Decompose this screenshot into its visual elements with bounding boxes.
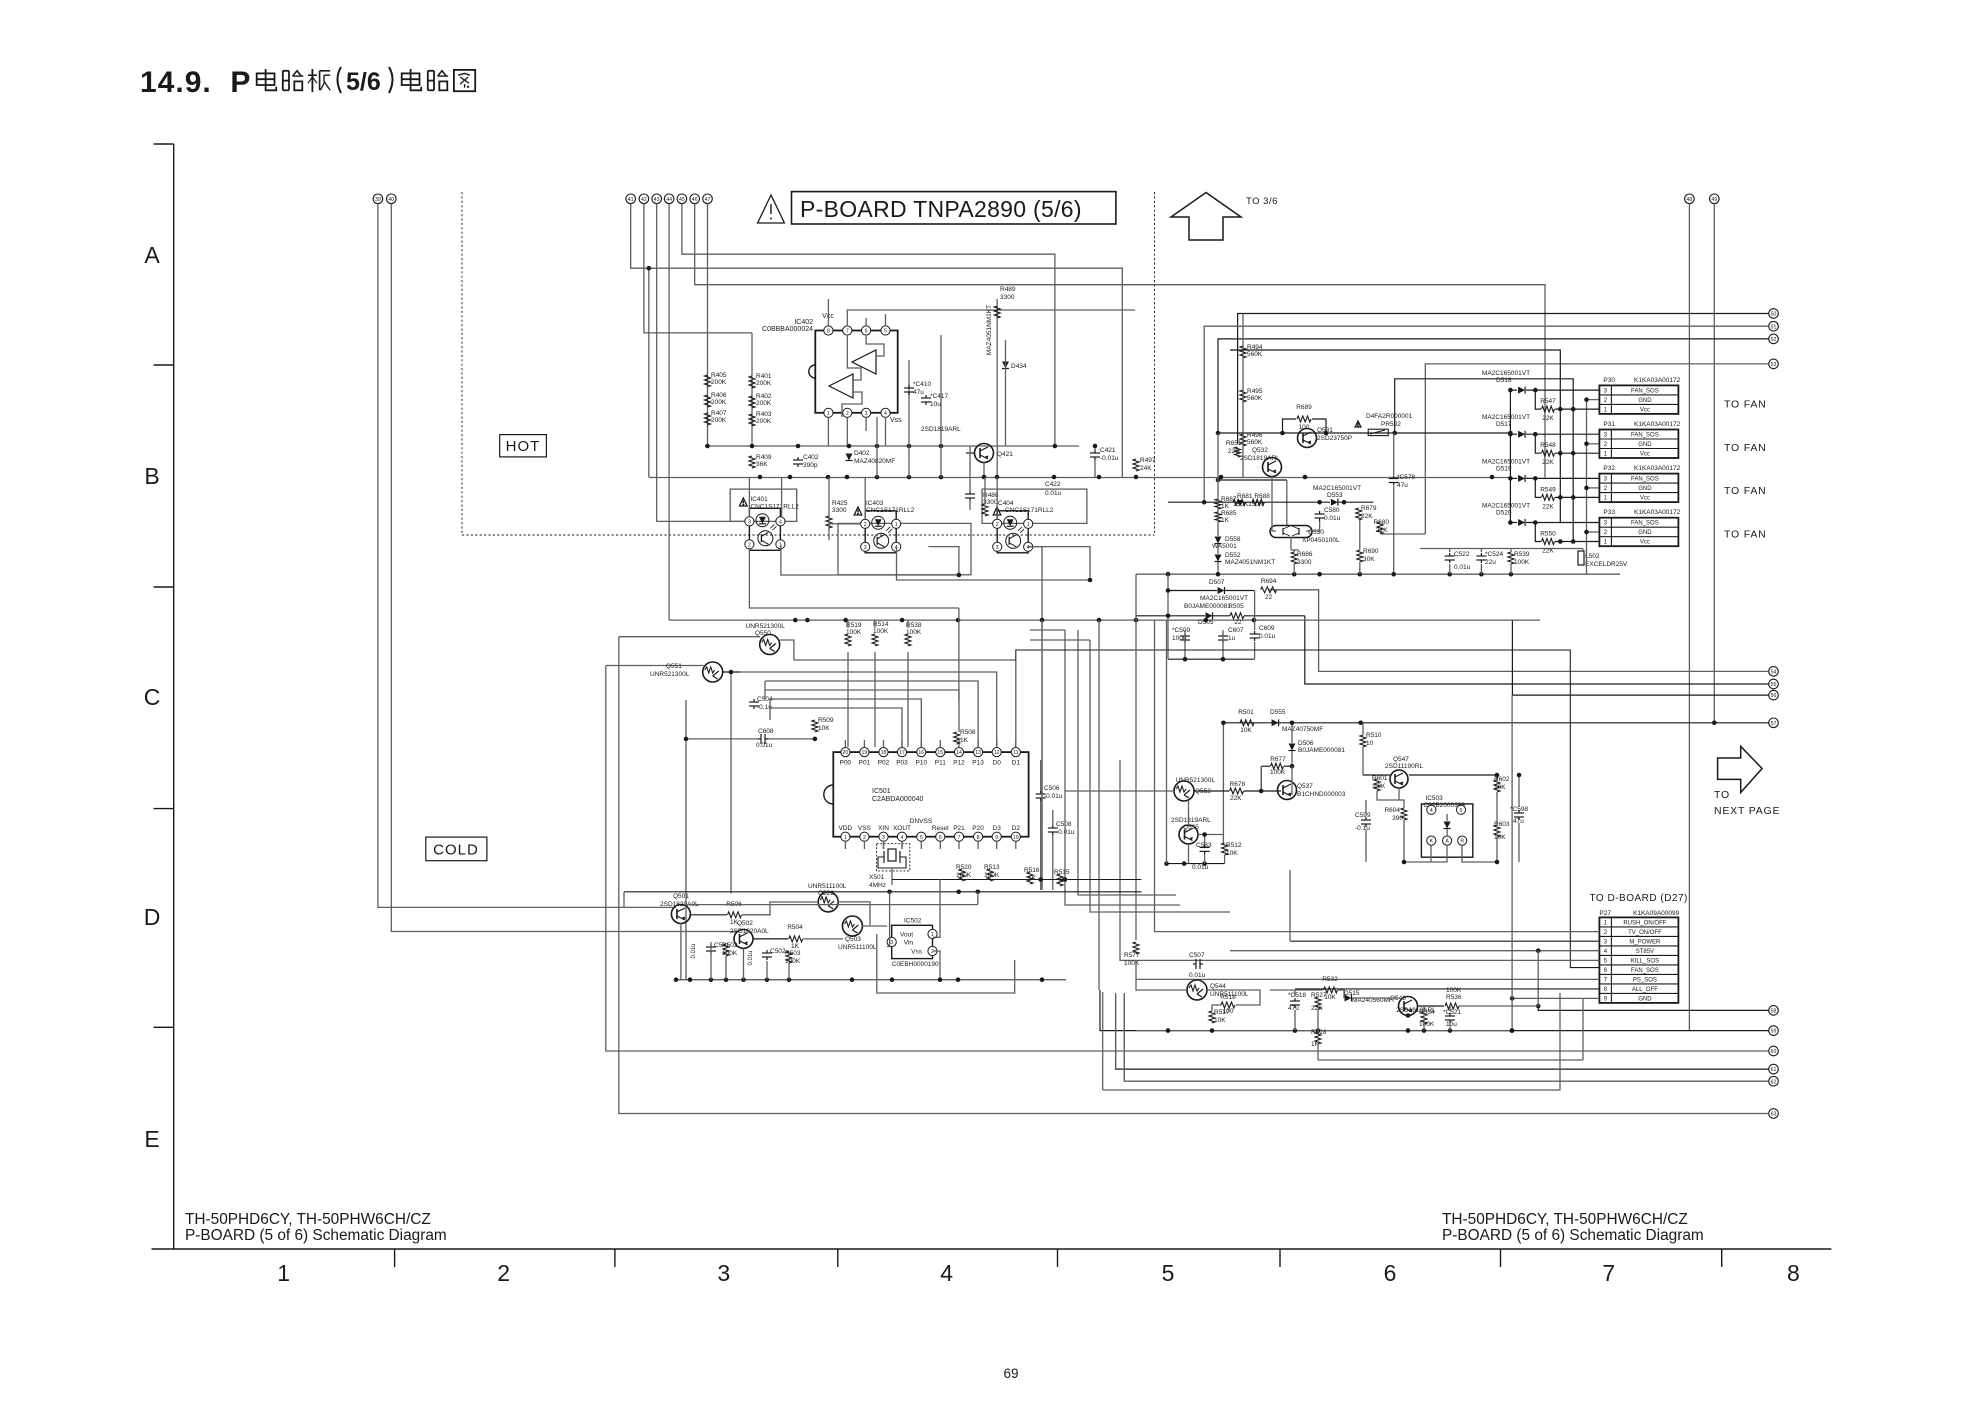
capacitor C506: [1040, 791, 1042, 794]
svg-text:2: 2: [846, 411, 849, 417]
svg-text:10: 10: [1013, 835, 1019, 841]
terminal 46: [690, 194, 700, 204]
svg-text:R512: R512: [1226, 842, 1242, 849]
wire c599: [1365, 800, 1367, 814]
svg-text:22K: 22K: [1361, 513, 1373, 520]
svg-text:D552: D552: [1225, 552, 1241, 559]
IC501 pin stub top: [939, 740, 941, 748]
svg-text:K1KA09A00099: K1KA09A00099: [1633, 910, 1680, 917]
svg-text:0.01u: 0.01u: [1324, 515, 1341, 522]
svg-text:R516: R516: [1024, 867, 1040, 874]
transistor Q552: [1174, 781, 1194, 801]
wire r690 col: [1359, 520, 1361, 550]
IC501 pin stub bottom: [958, 841, 960, 849]
svg-text:2: 2: [748, 542, 751, 548]
svg-text:R677: R677: [1270, 756, 1286, 763]
svg-text:2SD1820A0L: 2SD1820A0L: [730, 928, 769, 935]
svg-text:MAZ40750MF: MAZ40750MF: [1282, 726, 1323, 733]
svg-text:C0BBBA000024: C0BBBA000024: [762, 326, 813, 333]
resistor column R494: [1240, 346, 1246, 358]
svg-text:R679: R679: [1361, 505, 1377, 512]
capacitor C402: [797, 457, 799, 460]
svg-text:R534: R534: [1419, 1009, 1435, 1016]
IC402 opamp upper: [852, 350, 876, 374]
resistor R686: [1291, 552, 1297, 564]
resistor R503: [786, 951, 792, 963]
svg-text:R520: R520: [956, 864, 972, 871]
title paren close: [389, 67, 393, 93]
resistor R577: [1133, 942, 1139, 954]
resistor R548: [1535, 434, 1541, 453]
svg-text:R527: R527: [1311, 992, 1327, 999]
svg-text:9: 9: [995, 835, 998, 841]
svg-text:100K: 100K: [956, 872, 972, 879]
wire bus620: [669, 619, 1540, 621]
IC402 pin 5: [881, 326, 890, 335]
svg-text:GND: GND: [1638, 530, 1652, 536]
svg-text:63: 63: [1771, 1112, 1777, 1118]
hot boundary dashed horizontal: [462, 534, 1155, 536]
junction bus574: [1391, 572, 1396, 577]
junction bottom gnd: [1316, 1028, 1321, 1033]
svg-text:Reset: Reset: [932, 825, 949, 832]
svg-text:R402: R402: [756, 393, 772, 400]
svg-text:5/6: 5/6: [346, 68, 381, 96]
IC501 pin stub top: [844, 740, 846, 748]
TO 3/6 arrow: [1171, 193, 1241, 241]
wire q503 box: [877, 934, 1015, 993]
svg-text:100K: 100K: [1514, 559, 1530, 566]
svg-text:3: 3: [865, 411, 868, 417]
terminal 50: [1769, 309, 1779, 319]
diode D506: [1289, 744, 1296, 751]
junction bus477: [758, 475, 763, 480]
svg-text:UNR521300L: UNR521300L: [746, 623, 786, 630]
svg-text:MA2C165001VT: MA2C165001VT: [1482, 414, 1530, 421]
svg-text:C507: C507: [1189, 952, 1205, 959]
IC501 pin 8: [974, 832, 983, 841]
transistor Q535: [1179, 825, 1198, 844]
wire d0d1: [1016, 650, 1600, 968]
IC501 pin 14: [954, 748, 963, 757]
junction bus620: [793, 618, 798, 623]
svg-text:EXCELDR25V: EXCELDR25V: [1585, 561, 1628, 568]
resistor R685: [1215, 512, 1221, 522]
svg-text:3: 3: [748, 519, 751, 525]
svg-text:3300: 3300: [832, 507, 847, 514]
svg-text:Vcc: Vcc: [1640, 496, 1650, 502]
svg-text:UNR521300L: UNR521300L: [1176, 777, 1216, 784]
svg-text:220: 220: [1228, 448, 1239, 455]
svg-text:C2ABDA000040: C2ABDA000040: [872, 796, 923, 803]
wire cold bus: [624, 891, 1141, 893]
component PR502: [1368, 429, 1388, 435]
svg-text:47: 47: [705, 197, 711, 203]
wire gnd bus980: [676, 979, 1066, 981]
svg-text:IC403: IC403: [866, 500, 884, 507]
IC501 pin stub bottom: [996, 841, 998, 849]
resistor R515: [1057, 874, 1063, 886]
svg-text:TO: TO: [1714, 789, 1730, 801]
capacitor C522: [1449, 553, 1451, 556]
wire mid drop1: [958, 608, 960, 700]
svg-text:KILL_SOS: KILL_SOS: [1631, 958, 1659, 964]
frame row tick: [154, 364, 174, 366]
wire nest pin16: [770, 699, 921, 747]
svg-text:D555: D555: [1270, 709, 1286, 716]
junction bus620: [1040, 618, 1045, 623]
svg-text:Q535: Q535: [1183, 824, 1199, 831]
resistor R502: [723, 944, 729, 956]
terminal 55: [1769, 679, 1779, 689]
resistor R679: [1356, 508, 1362, 520]
svg-text:TV_ON/OFF: TV_ON/OFF: [1628, 930, 1662, 936]
wire r401 column: [751, 333, 753, 446]
svg-text:C580: C580: [1324, 507, 1340, 514]
wire fan ladder rail: [1509, 390, 1511, 522]
resistor R690: [1357, 550, 1363, 562]
svg-text:Q503: Q503: [845, 936, 861, 943]
capacitor C502: [766, 950, 768, 953]
svg-text:1K: 1K: [960, 737, 969, 744]
svg-text:5: 5: [884, 329, 887, 335]
svg-text:1K: 1K: [791, 943, 800, 950]
capacitor C507: [1193, 963, 1196, 965]
IC501 pin 2: [860, 832, 869, 841]
svg-text:560K: 560K: [1247, 351, 1263, 358]
svg-text:R678: R678: [1230, 781, 1246, 788]
junction bus574: [1447, 572, 1452, 577]
wire to term63b: [619, 637, 1769, 1114]
diode D520: [1518, 519, 1525, 526]
junction bus980: [688, 977, 693, 982]
title CJK dian2: [402, 73, 420, 85]
junction bus477: [1134, 475, 1139, 480]
svg-text:P32: P32: [1603, 465, 1615, 472]
svg-text:36K: 36K: [756, 461, 768, 468]
junction bus477: [1219, 475, 1224, 480]
wire term49 bus: [1713, 204, 1715, 723]
svg-text:100K: 100K: [1124, 960, 1140, 967]
svg-text:100K: 100K: [1419, 1021, 1435, 1028]
wire p27 r4: [1230, 950, 1599, 952]
wire q421 links: [966, 452, 974, 454]
svg-text:R489: R489: [1000, 286, 1016, 293]
svg-text:Q522: Q522: [818, 890, 834, 897]
svg-text:VSS: VSS: [858, 825, 872, 832]
svg-text:R532: R532: [1322, 976, 1338, 983]
diode D515: [1345, 995, 1352, 1002]
resistor R409: [749, 456, 755, 468]
svg-text:0.01u: 0.01u: [691, 943, 697, 958]
svg-text:TH-50PHD6CY, TH-50PHW6CH/CZ: TH-50PHD6CY, TH-50PHW6CH/CZ: [185, 1211, 431, 1228]
svg-text:45: 45: [679, 197, 685, 203]
junction bus980: [787, 977, 792, 982]
svg-text:Vcc: Vcc: [1640, 452, 1650, 458]
svg-text:B0JAME000081: B0JAME000081: [1298, 747, 1345, 754]
IC503 pin 5: [1456, 805, 1465, 814]
wire extra drop: [648, 268, 650, 477]
svg-text:D515: D515: [1344, 990, 1360, 997]
svg-text:K1KA03A00172: K1KA03A00172: [1634, 465, 1681, 472]
IC402 opamp wire1: [866, 335, 884, 356]
wire q537: [1194, 790, 1229, 792]
svg-text:2SD1819ARL: 2SD1819ARL: [921, 426, 961, 433]
svg-text:TO FAN: TO FAN: [1724, 528, 1767, 540]
resistor R501: [1240, 720, 1254, 726]
wire q551 col: [730, 672, 732, 894]
svg-text:UNR511100L: UNR511100L: [808, 883, 847, 890]
svg-text:D402: D402: [854, 450, 870, 457]
svg-text:R548: R548: [1540, 442, 1556, 449]
IC503 zener: [1444, 822, 1451, 829]
svg-text:R547: R547: [1540, 398, 1556, 405]
svg-text:K1KA03A00172: K1KA03A00172: [1634, 421, 1681, 428]
svg-text:5: 5: [920, 835, 923, 841]
svg-text:R: R: [1460, 839, 1464, 845]
resistor R405: [705, 375, 711, 387]
svg-text:R651: R651: [1226, 440, 1242, 447]
svg-text:4: 4: [779, 519, 782, 525]
diode D507: [1218, 587, 1225, 594]
IC402 opamp lower: [829, 374, 853, 398]
junction bus477: [788, 475, 793, 480]
junction bus477: [939, 475, 944, 480]
svg-text:XOUT: XOUT: [893, 825, 911, 832]
junction bus446: [875, 444, 880, 449]
svg-text:*C410: *C410: [913, 381, 931, 388]
svg-text:560K: 560K: [1247, 439, 1263, 446]
IC501 pin stub bottom: [939, 841, 941, 849]
svg-text:FAN_SOS: FAN_SOS: [1631, 968, 1659, 974]
junction c509: [1183, 657, 1188, 662]
resistor R520: [959, 869, 965, 881]
diode D402: [846, 454, 853, 461]
frame col tick: [614, 1249, 616, 1267]
svg-text:2SD1819ARL: 2SD1819ARL: [1171, 817, 1211, 824]
IC402 pin 1: [824, 408, 833, 417]
svg-text:PR502: PR502: [1381, 421, 1401, 428]
wire q550: [780, 640, 794, 660]
IC503 pin R: [1458, 836, 1467, 845]
wire q530: [1272, 476, 1276, 531]
wire mid drop2: [1041, 620, 1043, 890]
svg-text:-0.01u: -0.01u: [1100, 455, 1119, 462]
svg-text:P27: P27: [1599, 910, 1611, 917]
optocoupler IC401: [749, 508, 780, 550]
svg-text:D4FA2R000001: D4FA2R000001: [1366, 413, 1413, 420]
svg-text:41: 41: [628, 197, 634, 203]
frame row tick: [154, 586, 174, 588]
frame col tick: [1057, 1249, 1059, 1267]
terminal 51: [1769, 321, 1779, 331]
inductor L502: [1578, 551, 1584, 565]
wire to term56: [1512, 620, 1768, 695]
wire p27 r8: [1295, 988, 1599, 990]
wire fan rail left: [1217, 433, 1219, 536]
svg-text:7: 7: [1602, 1260, 1615, 1286]
svg-text:C421: C421: [1100, 447, 1116, 454]
terminal 48: [1685, 194, 1695, 204]
wire ic401 pin up: [748, 477, 750, 517]
junction bus620: [843, 618, 848, 623]
wire q547 base: [1377, 791, 1404, 808]
svg-text:7: 7: [846, 329, 849, 335]
svg-text:100K: 100K: [722, 950, 738, 957]
svg-text:10: 10: [1366, 740, 1374, 747]
svg-text:R680: R680: [1374, 519, 1390, 526]
wire c506 col: [1040, 760, 1042, 791]
capacitor C599: [1365, 817, 1367, 820]
svg-text:C0EBH0000190: C0EBH0000190: [892, 961, 939, 968]
wire band v5: [1166, 620, 1168, 864]
svg-text:0.01u: 0.01u: [1189, 972, 1206, 979]
wire to term59: [1100, 990, 1769, 1031]
svg-text:16: 16: [918, 750, 924, 756]
svg-text:200K: 200K: [756, 400, 772, 407]
svg-text:*C598: *C598: [1510, 806, 1528, 813]
junction bus446: [750, 444, 755, 449]
diode D519: [1518, 475, 1525, 482]
junction bus446: [796, 444, 801, 449]
junction bus477: [1097, 475, 1102, 480]
svg-text:CNC1S171RLL2: CNC1S171RLL2: [750, 503, 799, 510]
capacitor C417: [925, 395, 927, 398]
svg-text:1: 1: [844, 835, 847, 841]
svg-text:69: 69: [1003, 1366, 1018, 1381]
svg-text:R401: R401: [756, 373, 772, 380]
svg-text:R407: R407: [711, 410, 727, 417]
svg-text:390p: 390p: [803, 462, 818, 469]
svg-text:P21: P21: [953, 825, 965, 832]
svg-text:C599: C599: [1355, 812, 1371, 819]
svg-text:Q530: Q530: [1308, 529, 1324, 536]
svg-text:R604: R604: [1384, 807, 1400, 814]
svg-text:Q502: Q502: [737, 920, 753, 927]
svg-text:R515: R515: [1054, 869, 1070, 876]
svg-text:52: 52: [1771, 337, 1777, 343]
resistor R527: [1315, 997, 1321, 1009]
wire ic404 down: [1027, 547, 1042, 621]
resistor R505: [1230, 613, 1244, 619]
wire to term53: [1425, 364, 1768, 534]
svg-text:12: 12: [994, 750, 1000, 756]
svg-text:DNVSS: DNVSS: [910, 818, 933, 825]
resistor R534: [1421, 1012, 1427, 1024]
diode D518: [1518, 387, 1525, 394]
junction bus980: [956, 977, 961, 982]
svg-text:22K: 22K: [1311, 1005, 1323, 1012]
resistor R508: [954, 732, 960, 744]
junction bus980: [674, 977, 679, 982]
wire ic403 pin up: [864, 477, 866, 519]
wire xtal: [883, 841, 885, 849]
connector P33 table: [1599, 518, 1678, 547]
svg-text:A: A: [1445, 839, 1449, 845]
transistor Q537: [1278, 781, 1297, 800]
title CJK ban: [311, 69, 313, 92]
junction bus574: [1216, 572, 1221, 577]
svg-text:R497: R497: [1140, 457, 1156, 464]
svg-text:2SD1819ARL: 2SD1819ARL: [1240, 455, 1280, 462]
transistor Q551: [703, 662, 723, 682]
svg-text:20: 20: [843, 750, 849, 756]
frame row tick: [154, 808, 174, 810]
junction bus620: [1204, 618, 1209, 623]
junction bus574: [1479, 572, 1484, 577]
svg-text:R694: R694: [1261, 578, 1277, 585]
svg-text:1: 1: [827, 411, 830, 417]
terminal 53: [1769, 359, 1779, 369]
svg-text:R686: R686: [1297, 551, 1313, 558]
junction bus620: [1134, 618, 1139, 623]
resistor R403: [749, 414, 755, 426]
svg-text:R505: R505: [1228, 603, 1244, 610]
wire D518 net: [1510, 389, 1517, 391]
resistor R602: [1494, 780, 1500, 792]
svg-text:60: 60: [1771, 1049, 1777, 1055]
svg-text:TO FAN: TO FAN: [1724, 442, 1767, 454]
svg-text:R495: R495: [1247, 388, 1263, 395]
svg-text:R550: R550: [1540, 531, 1556, 538]
resistor R425: [826, 516, 832, 528]
wire opto rows2: [897, 547, 1091, 580]
IC403 warn: [854, 507, 862, 515]
svg-text:30K: 30K: [1363, 556, 1375, 563]
svg-text:R518: R518: [1220, 994, 1236, 1001]
wire term45: [682, 204, 1055, 446]
svg-text:R405: R405: [711, 372, 727, 379]
svg-text:Q547: Q547: [1393, 756, 1409, 763]
resistor R402: [749, 396, 755, 408]
svg-text:R508: R508: [960, 729, 976, 736]
wire bottom gnd: [1136, 1030, 1512, 1032]
svg-text:PS_SOS: PS_SOS: [1633, 977, 1657, 983]
junction bus477: [826, 475, 831, 480]
junction d555: [1358, 721, 1363, 726]
svg-text:*C578: *C578: [1397, 474, 1415, 481]
title CJK lu: [282, 71, 284, 91]
svg-text:VDD: VDD: [839, 825, 853, 832]
terminal 52: [1769, 334, 1779, 344]
junction bus980: [850, 977, 855, 982]
IC503 pin 4: [1427, 805, 1436, 814]
IC402 opamp wire2: [847, 335, 861, 380]
terminal 59: [1769, 1026, 1779, 1036]
svg-text:P11: P11: [935, 760, 946, 767]
frame row tick: [154, 143, 174, 145]
svg-text:62: 62: [1771, 1079, 1777, 1085]
resistor R689: [1283, 419, 1297, 433]
svg-text:42: 42: [641, 197, 647, 203]
svg-text:200K: 200K: [756, 380, 772, 387]
svg-text:54: 54: [1771, 670, 1777, 676]
svg-text:0.01u: 0.01u: [1454, 564, 1471, 571]
svg-text:2: 2: [863, 835, 866, 841]
svg-text:22: 22: [1234, 619, 1242, 626]
svg-text:UNR511100L: UNR511100L: [838, 944, 877, 951]
optocoupler IC403: [865, 511, 896, 553]
svg-text:E: E: [144, 1126, 159, 1152]
svg-text:R687: R687: [1221, 496, 1237, 503]
resistor R538: [905, 634, 911, 646]
wire to term62: [1124, 995, 1768, 1081]
wire r519 cols: [847, 652, 849, 747]
svg-text:R501: R501: [1238, 709, 1254, 716]
wire band v3: [1078, 630, 1176, 895]
IC501 pin 18: [879, 748, 888, 757]
svg-text:P30: P30: [1603, 377, 1615, 384]
